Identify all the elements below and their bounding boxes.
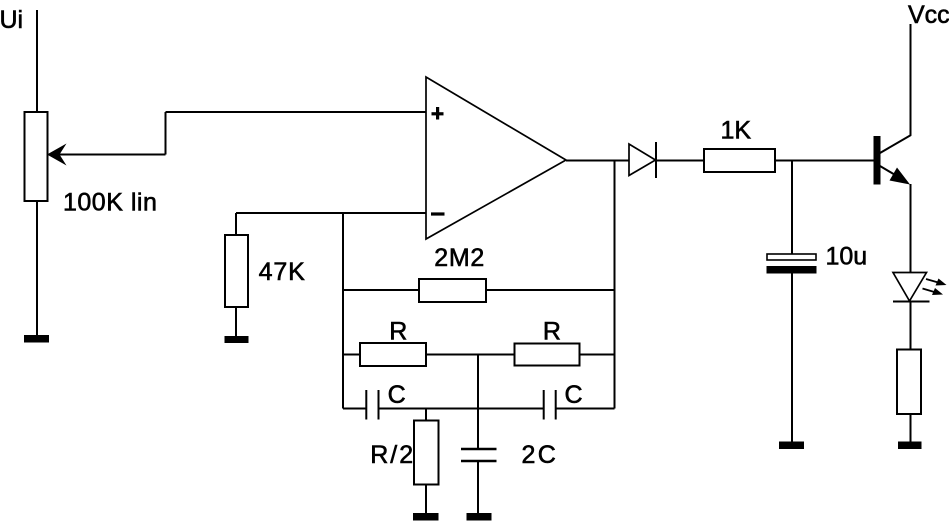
resistor 47K body — [225, 235, 248, 307]
resistor 2M2 body — [419, 279, 486, 302]
wire R/2 bottom to ground — [425, 485, 427, 515]
svg-text:R: R — [543, 317, 561, 345]
wire 47K bottom to ground — [235, 307, 237, 336]
wire C rail middle segment — [379, 408, 544, 410]
diode D1 — [629, 142, 656, 178]
wire 1K to transistor base — [775, 160, 874, 162]
wire R junction down to 2C — [477, 355, 479, 449]
wire C rail left segment — [343, 408, 366, 410]
svg-text:C: C — [388, 381, 406, 409]
ground (10u) — [779, 442, 804, 450]
wire Vcc to collector — [910, 24, 912, 136]
potentiometer P1 body — [25, 112, 48, 201]
resistor R left body — [360, 343, 426, 366]
op-amp + input symbol — [432, 107, 444, 120]
capacitor 10u plates — [767, 254, 817, 274]
wire 2M2 rail — [343, 289, 615, 291]
svg-text:R/2: R/2 — [370, 441, 415, 469]
capacitor C right plates — [544, 390, 556, 420]
wire diode to 1K — [656, 160, 704, 162]
ground (2C) — [467, 513, 492, 521]
resistor R right body — [515, 344, 580, 366]
capacitor C left plates — [366, 390, 378, 420]
ground (47K) — [225, 336, 249, 343]
wire junction down to 10u — [791, 161, 793, 255]
capacitor 2C plates — [461, 449, 497, 461]
wire inverting input — [236, 212, 426, 214]
wire C junction down to R/2 — [425, 409, 427, 422]
wire R rail — [343, 354, 615, 356]
wire emitter down to LED — [910, 184, 912, 273]
LED D2 — [893, 273, 930, 302]
svg-text:2C: 2C — [522, 441, 559, 469]
resistor (LED series) body — [897, 350, 921, 415]
wire potentiometer bottom to ground — [36, 201, 38, 336]
wire LED to resistor — [910, 302, 912, 350]
transistor Q1 — [874, 135, 912, 185]
svg-text:2M2: 2M2 — [434, 244, 485, 272]
op-amp - input symbol — [431, 212, 445, 215]
potentiometer wiper arrow — [47, 144, 166, 166]
wire C rail right segment — [556, 408, 615, 410]
wire Ui to potentiometer top — [36, 10, 38, 112]
wire 2C bottom to ground — [477, 461, 479, 514]
ground (potentiometer) — [24, 335, 49, 343]
wire to op-amp + input — [166, 111, 427, 113]
ground (LED resistor) — [898, 442, 922, 450]
svg-text:Vcc: Vcc — [908, 1, 949, 29]
svg-text:R: R — [389, 317, 407, 345]
wire left rail down from inverting input — [342, 213, 344, 409]
wire wiper jog up — [165, 112, 167, 155]
resistor R/2 body — [414, 421, 439, 485]
wire 10u bottom to ground — [791, 274, 793, 443]
ground (R/2) — [413, 513, 439, 521]
svg-text:Ui: Ui — [0, 6, 23, 34]
svg-text:10u: 10u — [826, 242, 868, 270]
wire right rail down from output — [614, 161, 616, 409]
svg-text:1K: 1K — [721, 116, 752, 144]
svg-text:47K: 47K — [259, 258, 306, 286]
op-amp U1 triangle — [426, 77, 566, 239]
wire resistor to ground — [910, 414, 912, 442]
svg-text:C: C — [565, 381, 583, 409]
resistor 1K body — [704, 149, 775, 172]
wire 47K top — [235, 213, 237, 235]
svg-text:100K lin: 100K lin — [63, 188, 157, 216]
wire op-amp output — [566, 160, 629, 162]
LED light arrows — [923, 279, 947, 296]
